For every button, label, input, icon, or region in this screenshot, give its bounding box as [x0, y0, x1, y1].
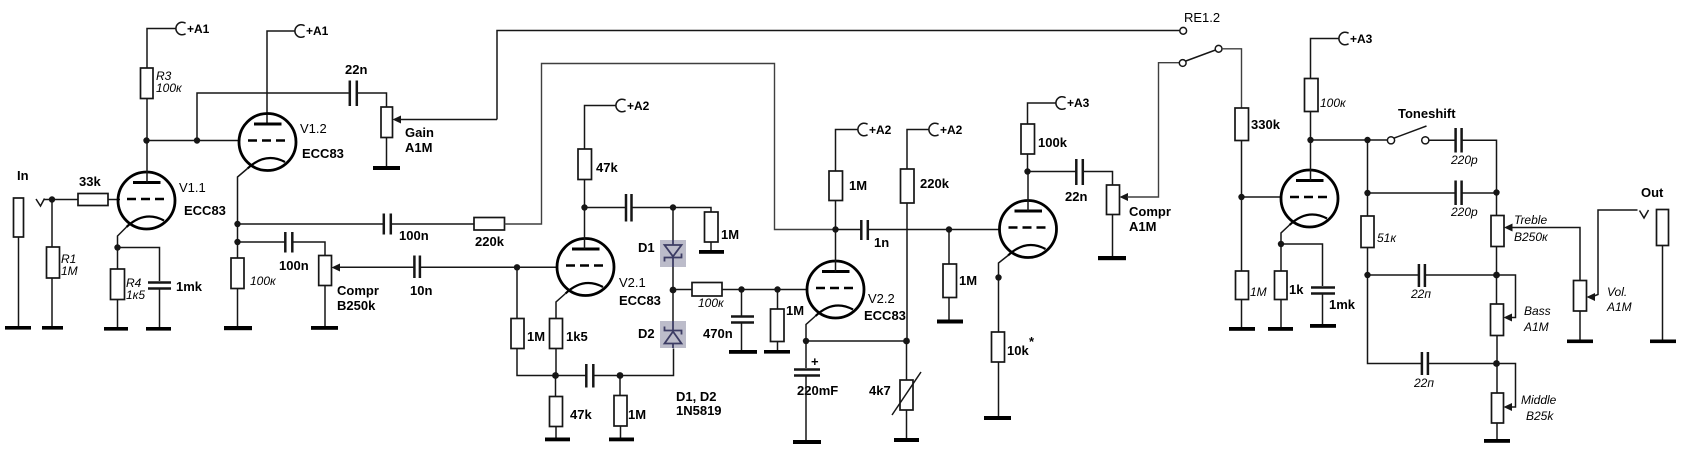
- wire cathode to 1mk cap: [1281, 244, 1323, 286]
- node V1.2 cathode junction A: [234, 221, 240, 227]
- ground Gain: [373, 166, 400, 170]
- resistor 47k plate: [578, 149, 618, 180]
- power +A2 second: [858, 123, 892, 137]
- capacitor 220mF electrolytic: [794, 354, 838, 398]
- wire 100k to +A3: [1311, 39, 1340, 79]
- ground 1M grid V3: [937, 320, 963, 324]
- capacitor 220p first: [1450, 128, 1478, 167]
- svg-text:Compr: Compr: [1129, 204, 1171, 219]
- wire V2.2 cathode lead: [806, 316, 816, 341]
- wire cathode node to 220mF: [805, 341, 807, 368]
- wire V2.2 plate lead: [835, 230, 837, 272]
- ground 470n: [729, 350, 757, 354]
- resistor 1M grid V4: [1236, 271, 1267, 300]
- wire B250k wiper to 10n: [339, 266, 414, 268]
- wire D1 to mid node: [672, 267, 674, 290]
- ground 1mk: [146, 327, 171, 331]
- svg-text:1M: 1M: [786, 303, 804, 318]
- wire 100k to 470n node: [722, 289, 742, 291]
- ground 1mk second: [1310, 324, 1336, 328]
- node middle junction: [1493, 360, 1500, 367]
- wire bass wiper loop: [1497, 275, 1516, 318]
- wire cathode A to 100n: [238, 223, 384, 225]
- svg-text:+A2: +A2: [627, 99, 650, 113]
- svg-text:A1M: A1M: [1129, 219, 1156, 234]
- svg-text:22п: 22п: [1410, 287, 1431, 301]
- power +A2: [616, 99, 650, 113]
- wire plate node to 1M anode load: [835, 201, 837, 230]
- connector input arrow: [36, 199, 45, 207]
- wire cap to right bus: [594, 375, 620, 377]
- wire 33k to V1.1 grid: [108, 199, 120, 201]
- wire 1M bottom to cathode bus: [517, 349, 556, 376]
- wire node to 22p first: [1368, 274, 1419, 276]
- wire cathode to 220k node: [806, 340, 907, 342]
- node V3 plate junction: [1024, 168, 1030, 174]
- wire 47k to ground: [555, 427, 557, 438]
- potentiometer Treble B250k: [1491, 213, 1549, 247]
- wire toneshift to 220p: [1429, 139, 1455, 141]
- wire V3 plate lead: [1027, 172, 1029, 212]
- connector In jack: [14, 198, 24, 237]
- ground Out jack: [1650, 340, 1676, 344]
- node V3 cathode junction: [995, 274, 1001, 280]
- svg-text:+A3: +A3: [1350, 32, 1373, 46]
- node V1.1 cathode junction: [114, 244, 120, 250]
- node diode mid junction: [670, 287, 677, 294]
- resistor 51k: [1361, 216, 1397, 248]
- node D1 top junction: [670, 204, 676, 210]
- wire 22n to Compr pot: [1083, 172, 1112, 186]
- potentiometer Bass A1M: [1491, 304, 1551, 336]
- ground Compr: [1098, 256, 1126, 260]
- wire 1M to ground: [948, 298, 950, 320]
- node 22p first junction: [1364, 272, 1370, 278]
- power +A3 second: [1339, 32, 1373, 46]
- wire bass node to pot: [1496, 275, 1498, 304]
- svg-text:1k: 1k: [1289, 282, 1304, 297]
- svg-text:1M: 1M: [61, 264, 78, 278]
- svg-text:D1, D2: D1, D2: [676, 389, 716, 404]
- svg-text:A1M: A1M: [1523, 320, 1549, 334]
- wire V2.1 cathode lead: [556, 294, 566, 319]
- resistor 1k cathode V4: [1275, 271, 1305, 300]
- wire 470n to ground: [741, 323, 743, 350]
- potentiometer Compr B250k: [319, 256, 379, 314]
- wire 220p to treble node: [1462, 140, 1496, 192]
- wire 22p to bass node: [1425, 274, 1496, 276]
- potentiometer Vol A1M: [1574, 281, 1632, 315]
- wire V4 plate lead: [1310, 140, 1312, 181]
- svg-text:ECC83: ECC83: [302, 146, 344, 161]
- wire node to 220p second: [1368, 192, 1455, 194]
- wire 1M to ground: [777, 342, 779, 351]
- wire input to 33k: [44, 199, 78, 201]
- wire node to V2.2 grid: [778, 289, 808, 291]
- wire 1M to ground: [1241, 300, 1243, 328]
- wire 100n to B250k pot: [293, 242, 325, 256]
- wire B250k to ground: [324, 286, 326, 327]
- resistor 10k star: [992, 332, 1036, 362]
- svg-text:330k: 330k: [1251, 117, 1281, 132]
- wire node to 1M: [673, 208, 711, 213]
- capacitor 100n second: [384, 214, 429, 244]
- capacitor 22p second: [1413, 352, 1434, 390]
- svg-text:470n: 470n: [703, 326, 733, 341]
- svg-text:V2.1: V2.1: [619, 275, 646, 290]
- svg-text:100к: 100к: [1320, 96, 1347, 110]
- wire 22p node down to 22p second: [1368, 275, 1422, 364]
- svg-text:220p: 220p: [1450, 205, 1478, 219]
- svg-text:Treble: Treble: [1514, 213, 1547, 227]
- svg-text:220mF: 220mF: [797, 383, 838, 398]
- wire 220mF to ground: [805, 376, 807, 440]
- wire node to 470n: [741, 290, 743, 316]
- wire stack node to 51k: [1367, 140, 1369, 216]
- wire 1mk to ground: [159, 289, 161, 327]
- tube V3 ECC83: [1000, 201, 1057, 258]
- wire V1.2 cathode lead: [238, 169, 248, 225]
- capacitor 22n second: [1065, 159, 1087, 204]
- wire middle to ground: [1496, 423, 1498, 439]
- wire vol wiper to out: [1594, 210, 1638, 296]
- svg-text:1M: 1M: [849, 178, 867, 193]
- wire 330k to grid node: [1241, 141, 1243, 198]
- tube V2.1 ECC83: [557, 239, 661, 309]
- wire 1k to ground: [1280, 300, 1282, 328]
- wire V1.1 plate to V1.2 grid: [147, 140, 240, 142]
- wire treble node to pot: [1496, 193, 1498, 216]
- wire middle wiper loop: [1497, 364, 1516, 408]
- svg-text:100n: 100n: [399, 228, 429, 243]
- svg-text:1M: 1M: [527, 329, 545, 344]
- wire 22n to Gain pot: [358, 93, 387, 107]
- switch Toneshift: [1387, 106, 1456, 144]
- ground 1M grid: [764, 350, 790, 354]
- svg-text:ECC83: ECC83: [184, 203, 226, 218]
- connector Out jack: [1657, 210, 1669, 246]
- wire bus to D2: [620, 349, 674, 376]
- wire R4 to ground: [117, 300, 119, 328]
- wire plate node to 100k: [1310, 112, 1312, 141]
- wire cathode to R4: [117, 248, 119, 270]
- svg-text:+A3: +A3: [1067, 96, 1090, 110]
- svg-text:Vol.: Vol.: [1607, 285, 1627, 299]
- svg-text:V1.2: V1.2: [300, 121, 327, 136]
- svg-text:V2.2: V2.2: [868, 291, 895, 306]
- wire grid node to 1M: [1241, 197, 1243, 271]
- ground R4: [104, 327, 128, 331]
- capacitor 10n: [410, 256, 432, 299]
- svg-text:1n: 1n: [874, 235, 889, 250]
- svg-text:1k5: 1k5: [566, 329, 588, 344]
- wire cap to D1 node: [632, 207, 673, 209]
- ground In jack: [5, 326, 31, 330]
- wire 220p second to treble node: [1462, 192, 1496, 194]
- wire plate node to 1n: [836, 229, 861, 231]
- node V2.1 grid junction: [514, 264, 520, 270]
- node V1.1 plate junction: [143, 137, 149, 143]
- svg-text:Compr: Compr: [337, 283, 379, 298]
- resistor 100k cathode: [231, 258, 277, 289]
- ground B250k: [311, 326, 338, 330]
- wire R1 to ground: [51, 278, 53, 326]
- wire 4k7 to ground: [906, 410, 908, 438]
- svg-text:22n: 22n: [1065, 189, 1087, 204]
- capacitor 22p first: [1410, 264, 1431, 301]
- svg-text:In: In: [17, 168, 29, 183]
- node V4 grid junction: [1238, 194, 1244, 200]
- resistor 47k bottom: [550, 397, 593, 427]
- wire Compr wiper to relay: [1127, 63, 1179, 197]
- svg-text:RE1.2: RE1.2: [1184, 10, 1220, 25]
- wire input to R1: [51, 200, 53, 248]
- svg-text:A1M: A1M: [1606, 300, 1632, 314]
- capacitor 470n: [703, 317, 754, 342]
- resistor 1M grid V2.2: [771, 303, 805, 342]
- wire V4 cathode lead: [1281, 225, 1290, 244]
- wire node to 1M node: [742, 289, 778, 291]
- svg-text:B25k: B25k: [1526, 409, 1554, 423]
- svg-text:100n: 100n: [279, 258, 309, 273]
- wire plate node to R3: [146, 99, 148, 141]
- rheostat 4k7: [869, 372, 921, 415]
- svg-text:ECC83: ECC83: [864, 308, 906, 323]
- ground 4k7: [894, 438, 919, 442]
- node V3 grid junction: [946, 226, 952, 232]
- wire jack to ground: [1662, 246, 1664, 340]
- svg-text:B250к: B250к: [1514, 230, 1549, 244]
- wire 1M to +A2: [836, 130, 859, 172]
- node V2.2 plate junction: [832, 226, 838, 232]
- tube V4 ECC83: [1281, 170, 1338, 227]
- node V4 plate junction: [1307, 137, 1313, 143]
- svg-text:47k: 47k: [570, 407, 592, 422]
- svg-text:22n: 22n: [345, 62, 367, 77]
- wire mid node to 100k: [673, 289, 692, 291]
- node 220p second junction: [1364, 190, 1370, 196]
- svg-text:220k: 220k: [920, 176, 950, 191]
- connector output arrow: [1640, 210, 1649, 218]
- wire treble bottom to bass node: [1496, 247, 1498, 276]
- wire 10n to V2.1 grid: [421, 266, 558, 268]
- node V2.1 plate junction: [581, 204, 587, 210]
- svg-text:Bass: Bass: [1524, 304, 1551, 318]
- svg-text:B250k: B250k: [337, 298, 376, 313]
- svg-text:Gain: Gain: [405, 125, 434, 140]
- resistor 1M grid V3: [943, 264, 977, 298]
- ground 1k: [1268, 327, 1293, 331]
- svg-text:ECC83: ECC83: [619, 293, 661, 308]
- resistor 33k: [78, 174, 108, 206]
- resistor 330k: [1235, 108, 1281, 141]
- resistor 1M bottom: [614, 396, 646, 427]
- node V2.2 cathode junction: [803, 338, 809, 344]
- resistor 1M grid V2.1: [511, 319, 545, 349]
- wire cathode to 1mk cap: [118, 248, 160, 282]
- svg-text:D1: D1: [638, 240, 655, 255]
- svg-text:1N5819: 1N5819: [676, 403, 722, 418]
- tube V2.2 ECC83: [807, 261, 906, 323]
- svg-text:1M: 1M: [628, 407, 646, 422]
- resistor 1k5: [550, 319, 588, 349]
- wire 1M to ground: [620, 426, 622, 438]
- wire 220k down to cathode bus: [906, 203, 908, 341]
- svg-text:1M: 1M: [721, 227, 739, 242]
- svg-text:4k7: 4k7: [869, 383, 891, 398]
- node 470n junction: [738, 286, 744, 292]
- potentiometer Compr A1M: [1107, 185, 1171, 234]
- ground Vol: [1567, 340, 1593, 344]
- potentiometer Gain A1M: [381, 107, 497, 155]
- wire 47k to +A2: [585, 106, 617, 150]
- node 4k7 junction: [903, 338, 910, 345]
- svg-text:51к: 51к: [1377, 231, 1397, 245]
- svg-text:+A1: +A1: [187, 22, 210, 36]
- wire bus right leg to 1M: [619, 376, 621, 396]
- wire cathode B to 100n first: [238, 241, 285, 243]
- wire bus to cap: [556, 375, 586, 377]
- ground R1: [42, 326, 63, 330]
- capacitor 1mk: [148, 279, 203, 294]
- svg-text:100k: 100k: [1038, 135, 1068, 150]
- wire cathode to 1k: [1280, 244, 1282, 271]
- power +A1 second: [295, 24, 329, 38]
- svg-text:+A2: +A2: [869, 123, 892, 137]
- tube V1.1 ECC83: [118, 172, 226, 229]
- ground 10k: [984, 416, 1011, 420]
- ground Middle: [1484, 439, 1510, 443]
- resistor 100k horizontal: [692, 283, 725, 311]
- wire 1mk to ground: [1322, 294, 1324, 324]
- resistor 1M clipper: [705, 212, 740, 242]
- switch RE1.2: [1179, 10, 1222, 66]
- capacitor clipper: [626, 194, 632, 222]
- wire 51k to 22p node: [1367, 248, 1369, 276]
- svg-text:100к: 100к: [156, 81, 183, 95]
- wire +A2 to 220k: [907, 130, 930, 170]
- ground 1M bottom: [609, 438, 634, 442]
- capacitor 100n first: [279, 232, 309, 273]
- tube V1.2 ECC83: [239, 114, 344, 171]
- label D1 D2 type: [676, 389, 722, 418]
- svg-text:Out: Out: [1641, 185, 1664, 200]
- capacitor 1mk second: [1311, 288, 1356, 313]
- wire relay contact to 330k: [1222, 49, 1242, 108]
- wire jack to ground: [18, 237, 20, 326]
- ground 100k: [224, 326, 252, 330]
- svg-text:1M: 1M: [959, 273, 977, 288]
- wire 10k to ground: [998, 362, 1000, 416]
- svg-text:100к: 100к: [250, 274, 277, 288]
- power +A3: [1056, 96, 1090, 110]
- wire V1.1 cathode lead: [118, 227, 127, 248]
- resistor R1 1M: [47, 247, 78, 278]
- svg-text:47k: 47k: [596, 160, 618, 175]
- node treble top junction: [1493, 189, 1499, 195]
- wire cathode to 10k: [998, 278, 1000, 333]
- wire V1.1 plate lead: [146, 141, 148, 183]
- wire plate node to tone stack: [1311, 139, 1388, 141]
- svg-text:1mk: 1mk: [1329, 297, 1356, 312]
- svg-text:1M: 1M: [1250, 285, 1267, 299]
- wire grid node to V4: [1242, 196, 1282, 198]
- resistor 100k anode V3: [1021, 124, 1068, 154]
- wire node to D1: [672, 208, 674, 241]
- wire +A1 to V1.2 plate: [267, 31, 296, 124]
- svg-text:22п: 22п: [1413, 376, 1434, 390]
- node bus junction right: [617, 372, 624, 379]
- svg-text:+A1: +A1: [306, 24, 329, 38]
- resistor R4 1k5: [111, 269, 146, 302]
- wire vol to ground: [1579, 311, 1581, 340]
- wire R3 to +A1: [147, 29, 177, 69]
- ground 220mF: [793, 440, 821, 444]
- power +A2 third: [929, 123, 963, 137]
- svg-text:D2: D2: [638, 326, 655, 341]
- wire 4k7 node down: [906, 341, 908, 380]
- wire 22p second to middle node: [1428, 363, 1496, 365]
- wire grid node to 1M: [516, 267, 518, 318]
- wire mid node to D2: [672, 290, 674, 321]
- wire middle node to pot: [1496, 364, 1498, 394]
- power +A1: [176, 22, 210, 36]
- node bass junction: [1493, 272, 1500, 279]
- wire bus left leg to 47k: [555, 376, 557, 397]
- capacitor 220p second: [1450, 181, 1478, 220]
- svg-text:100к: 100к: [698, 296, 725, 310]
- svg-text:220k: 220k: [475, 234, 505, 249]
- diode D2 1N5819: [638, 321, 686, 348]
- svg-text:220p: 220p: [1450, 153, 1478, 167]
- svg-text:V1.1: V1.1: [179, 180, 206, 195]
- node input junction: [49, 196, 55, 202]
- resistor 220k screen: [901, 169, 950, 203]
- wire grid node up to 22n: [197, 93, 349, 141]
- wire plate node to 22n: [1028, 171, 1076, 173]
- capacitor 1n: [861, 220, 889, 250]
- wire cathode junctions: [237, 224, 239, 258]
- ground 1M V4: [1229, 327, 1255, 331]
- diode D1 1N5819: [638, 240, 686, 267]
- wire bass bottom to middle node: [1496, 336, 1498, 364]
- wire 220k up and across to V2.2 plate node: [505, 64, 836, 230]
- resistor 100k anode V4: [1305, 79, 1348, 112]
- node V1.2 grid junction: [194, 137, 200, 143]
- resistor R3 100k: [141, 68, 184, 99]
- svg-text:Middle: Middle: [1521, 393, 1557, 407]
- wire Compr to ground: [1112, 215, 1114, 257]
- resistor 220k: [474, 218, 505, 250]
- wire 1M to ground: [710, 242, 712, 250]
- wire Gain to ground: [386, 138, 388, 167]
- svg-text:10k: 10k: [1007, 343, 1029, 358]
- wire plate node to 47k: [584, 180, 586, 208]
- wire node to 1M grid V3: [948, 230, 950, 265]
- wire plate node to 100k: [1027, 154, 1029, 172]
- wire plate node to clipper cap: [585, 207, 626, 209]
- capacitor bus coupling: [586, 364, 593, 388]
- node tone stack junction: [1364, 137, 1370, 143]
- svg-text:A1M: A1M: [405, 140, 432, 155]
- svg-text:1mk: 1mk: [176, 279, 203, 294]
- node V1.2 cathode junction B: [234, 239, 240, 245]
- node bus junction left: [552, 372, 559, 379]
- node V4 cathode junction: [1278, 241, 1284, 247]
- wire 100k to +A3: [1028, 103, 1057, 124]
- svg-text:1к5: 1к5: [126, 288, 145, 302]
- wire V2.1 plate lead: [584, 208, 586, 250]
